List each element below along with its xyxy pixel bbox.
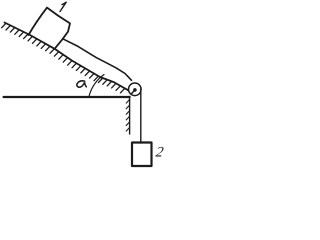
svg-text:2: 2 bbox=[155, 144, 165, 160]
